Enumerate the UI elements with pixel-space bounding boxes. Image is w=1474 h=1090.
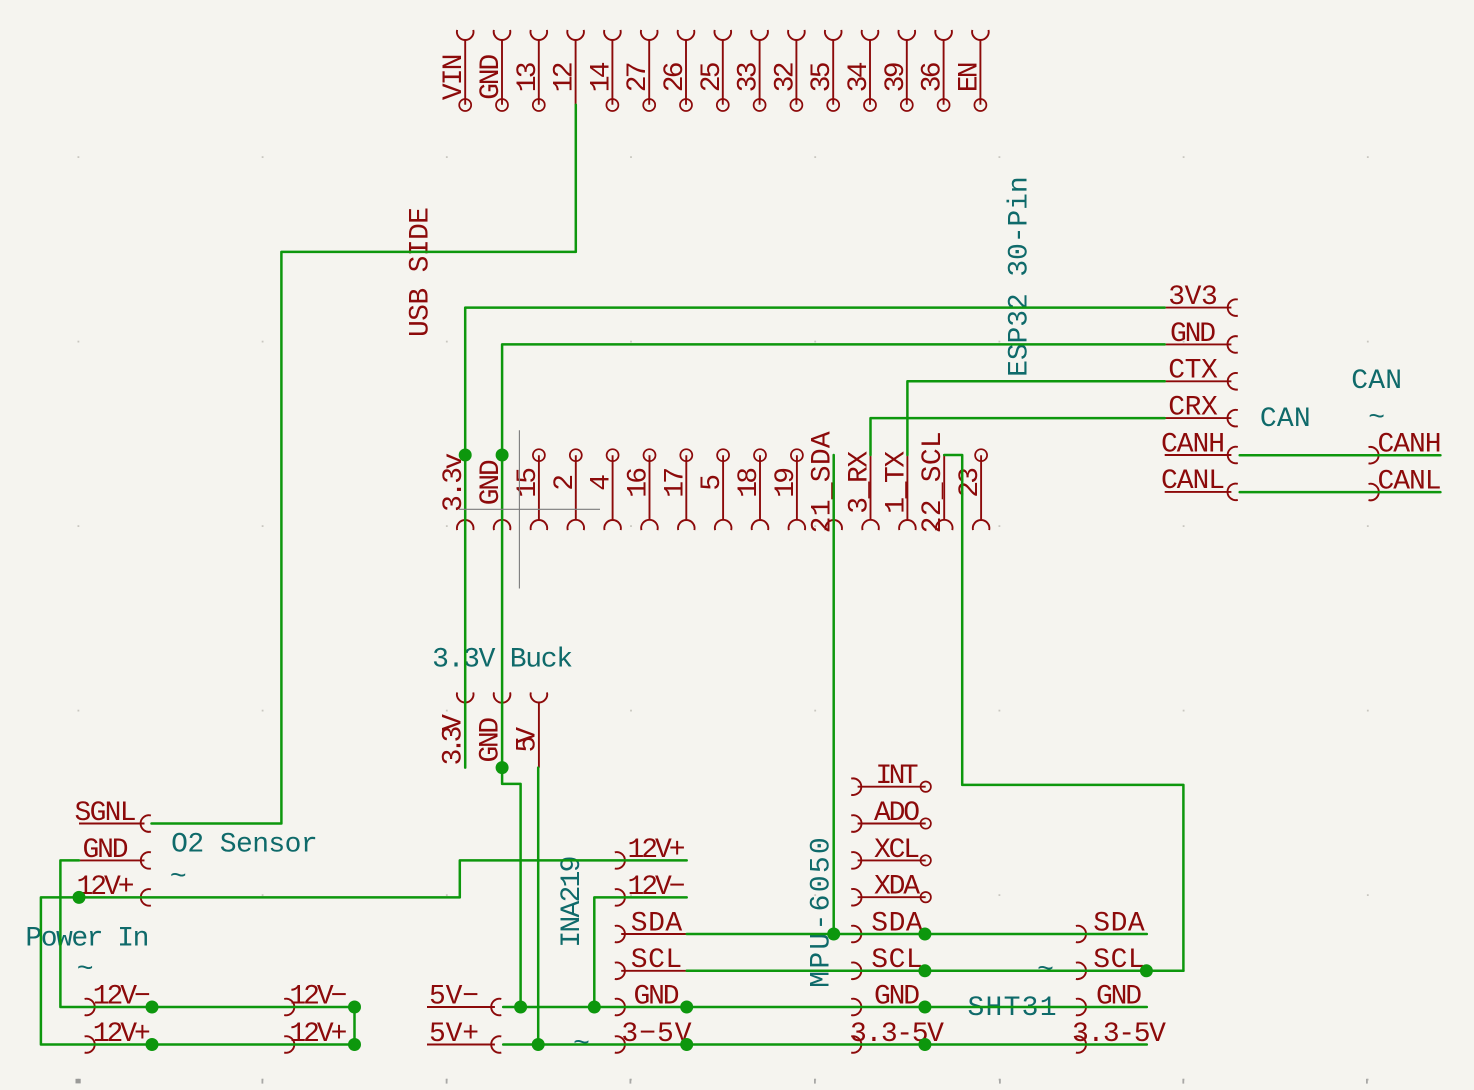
pin 32 (top header) <box>770 30 804 111</box>
svg-text:1_TX: 1_TX <box>881 451 912 514</box>
value label O2 Sensor <box>171 830 318 861</box>
svg-text:XCL: XCL <box>874 835 920 866</box>
pin 3.3-5V (MPU-6050) <box>850 1019 944 1053</box>
junction <box>73 891 86 904</box>
junction <box>496 449 509 462</box>
wire 12V+ left loop <box>41 897 355 1044</box>
pin 18 (ESP32 header) <box>734 449 768 530</box>
svg-text:4: 4 <box>587 474 618 491</box>
junction <box>348 1001 361 1014</box>
junction <box>348 1038 361 1051</box>
pin ADO (MPU-6050) <box>851 798 931 832</box>
pin 12V- (Power In) <box>85 981 152 1015</box>
svg-text:5V+: 5V+ <box>429 1019 479 1050</box>
wire pin12 to O2 SGNL <box>152 105 576 824</box>
value label CAN (connector) <box>1351 366 1402 397</box>
junction <box>514 1001 527 1014</box>
svg-text:5V−: 5V− <box>429 981 479 1012</box>
svg-text:25: 25 <box>697 61 728 92</box>
svg-text:13: 13 <box>513 61 544 92</box>
svg-text:XDA: XDA <box>874 872 920 903</box>
svg-text:35: 35 <box>807 61 838 92</box>
svg-text:23: 23 <box>955 467 986 498</box>
pin CTX (CAN module) <box>1165 356 1238 390</box>
junction <box>588 1001 601 1014</box>
pin 3.3V (3.3V Buck) <box>439 692 474 767</box>
svg-text:22_SCL: 22_SCL <box>918 431 949 533</box>
svg-text:ESP32 30-Pin: ESP32 30-Pin <box>1005 176 1036 377</box>
svg-text:34: 34 <box>844 61 875 92</box>
value label SHT31 <box>968 993 1057 1024</box>
pin 12V+ (INA219) <box>615 835 687 869</box>
pin 12V- (INA219) <box>615 872 687 906</box>
pin 27 (top header) <box>623 30 657 111</box>
svg-text:GND: GND <box>476 54 507 100</box>
pin 3.3-5V (SHT31) <box>1072 1019 1166 1053</box>
junction <box>1140 964 1153 977</box>
value label 3.3V Buck <box>432 645 573 676</box>
pin GND (O2 Sensor) <box>79 835 151 869</box>
pin 2 (ESP32 header) <box>550 449 584 530</box>
junction <box>680 1038 693 1051</box>
wire INA 12V- down <box>594 897 686 1007</box>
svg-text:INT: INT <box>876 761 919 792</box>
svg-text:VIN: VIN <box>439 54 470 101</box>
pin 17 (ESP32 header) <box>660 449 694 530</box>
pin SCL (SHT31) <box>1076 945 1147 979</box>
tilde field (SHT31) <box>1037 955 1054 986</box>
pin SDA (SHT31) <box>1076 908 1147 942</box>
wire SCL row <box>687 970 1184 973</box>
svg-text:16: 16 <box>624 467 655 498</box>
value label Power In <box>25 924 149 955</box>
pin SDA (MPU-6050) <box>851 908 925 942</box>
value label MPU-6050 <box>807 837 838 988</box>
pin 12V+ (O2 Sensor) <box>77 872 151 906</box>
pin 12V+ (Power In) <box>85 1019 152 1053</box>
svg-text:O2 Sensor: O2 Sensor <box>171 830 318 861</box>
svg-text:CANL: CANL <box>1161 466 1225 497</box>
pin SGNL (O2 Sensor) <box>75 798 151 832</box>
pin 3.3v (ESP32 header) <box>439 453 473 530</box>
wire 5V+ row <box>503 1043 1147 1046</box>
value label CAN (module) <box>1260 404 1311 435</box>
pin SDA (INA219) <box>615 908 687 942</box>
wire GND row <box>503 1006 1147 1009</box>
pin 5V- (INA219) <box>427 981 501 1015</box>
pin XDA (MPU-6050) <box>851 872 931 906</box>
pin 15 (ESP32 header) <box>513 449 547 530</box>
pin SCL (INA219) <box>615 945 687 979</box>
pin VIN (top header) <box>439 30 473 111</box>
svg-text:GND: GND <box>83 835 129 866</box>
junction <box>146 1038 159 1051</box>
pin 5V (3.3V Buck) <box>512 692 547 767</box>
pin 16 (ESP32 header) <box>624 449 658 530</box>
tilde field (Power In) <box>77 955 94 986</box>
pin GND (INA219) <box>615 981 687 1015</box>
value label INA219 <box>557 856 588 948</box>
svg-text:Power In: Power In <box>25 924 149 955</box>
pin 4 (ESP32 header) <box>587 449 621 530</box>
svg-text:26: 26 <box>660 61 691 92</box>
wire buck GND jog <box>502 768 520 1007</box>
pin INT (MPU-6050) <box>851 761 931 795</box>
pin GND (SHT31) <box>1076 981 1147 1015</box>
wire CANH <box>1240 454 1441 457</box>
pin 12V+ (power connector 2) <box>284 1019 354 1053</box>
svg-text:ADO: ADO <box>874 798 920 829</box>
junction <box>496 761 509 774</box>
pin 33 (top header) <box>734 30 768 111</box>
pin CANH (CAN connector) <box>1369 430 1442 464</box>
pin GND (ESP32 header) <box>476 455 510 530</box>
svg-text:17: 17 <box>660 467 691 498</box>
pin 12 (top header) <box>550 30 584 105</box>
pin 3V3 (CAN module) <box>1165 282 1238 316</box>
pin CANL (CAN module) <box>1161 466 1238 500</box>
wire SDA row <box>687 933 1147 936</box>
wire O2 GND loop <box>60 860 354 1007</box>
label ESP32 30-Pin <box>1005 176 1036 377</box>
pin CANH (CAN module) <box>1161 429 1238 463</box>
pin CRX (CAN module) <box>1165 393 1238 427</box>
junction <box>918 964 931 977</box>
svg-text:SGNL: SGNL <box>75 798 137 829</box>
wire 22_SCL to SHT31 SCL <box>944 455 1183 971</box>
svg-text:USB SIDE: USB SIDE <box>406 207 437 337</box>
svg-text:~: ~ <box>77 955 94 986</box>
svg-text:2: 2 <box>550 474 581 491</box>
junction <box>918 928 931 941</box>
svg-text:SDA: SDA <box>631 908 683 939</box>
wire GND net <box>502 344 1165 767</box>
svg-text:5: 5 <box>697 474 728 491</box>
svg-text:14: 14 <box>586 61 617 92</box>
tilde field (INA219) <box>573 1029 590 1060</box>
pin 1_TX (ESP32 header) <box>881 451 915 530</box>
svg-text:3V3: 3V3 <box>1168 282 1218 313</box>
junction <box>918 1038 931 1051</box>
svg-text:~: ~ <box>1368 403 1385 434</box>
pin 36 (top header) <box>918 30 952 111</box>
pin 23 (ESP32 header) <box>955 449 989 530</box>
junction <box>459 449 472 462</box>
pin 21_SDA (ESP32 header) <box>808 431 842 533</box>
junction <box>680 1001 693 1014</box>
svg-text:39: 39 <box>881 61 912 92</box>
wire CANL <box>1240 491 1441 494</box>
pin 13 (top header) <box>513 30 547 111</box>
pin XCL (MPU-6050) <box>851 835 931 869</box>
pin SCL (MPU-6050) <box>851 945 925 979</box>
pin 25 (top header) <box>697 30 731 111</box>
svg-text:CRX: CRX <box>1168 393 1218 424</box>
pin 14 (top header) <box>586 30 620 111</box>
wire CTX to 1_TX <box>907 381 1164 455</box>
svg-text:36: 36 <box>918 61 949 92</box>
svg-text:GND: GND <box>1170 319 1216 350</box>
svg-text:~: ~ <box>170 862 187 893</box>
svg-text:15: 15 <box>513 467 544 498</box>
pin 12V- (power connector 2) <box>284 981 354 1015</box>
pin 35 (top header) <box>807 30 841 111</box>
pin 3_RX (ESP32 header) <box>845 451 879 530</box>
pin 3-5V (INA219) <box>615 1019 692 1053</box>
pin 39 (top header) <box>881 30 915 111</box>
pin 5V+ (INA219) <box>427 1019 501 1053</box>
wire O2 12V+ to INA 12V+ <box>79 860 687 897</box>
tilde field (CAN connector) <box>1368 403 1385 434</box>
wire 3V3 net <box>465 308 1164 768</box>
wire 21_SDA vertical <box>832 455 835 934</box>
junction <box>532 1038 545 1051</box>
svg-text:CTX: CTX <box>1168 356 1218 387</box>
pin 34 (top header) <box>844 30 878 111</box>
svg-text:CANH: CANH <box>1161 429 1225 460</box>
wire buck 5V down <box>537 768 540 1045</box>
junction <box>827 928 840 941</box>
tilde field (O2 Sensor) <box>170 862 187 893</box>
svg-text:CAN: CAN <box>1260 404 1311 435</box>
svg-text:32: 32 <box>770 61 801 92</box>
pin 26 (top header) <box>660 30 694 111</box>
pin GND (CAN module) <box>1165 319 1238 353</box>
svg-text:CAN: CAN <box>1351 366 1402 397</box>
svg-text:SCL: SCL <box>631 945 682 976</box>
junction <box>918 1001 931 1014</box>
svg-text:18: 18 <box>734 467 765 498</box>
svg-text:33: 33 <box>734 61 765 92</box>
pin 22_SCL (ESP32 header) <box>918 431 952 533</box>
junction <box>146 1001 159 1014</box>
wire 12V tie <box>353 1007 356 1045</box>
pin EN (top header) <box>954 30 988 111</box>
svg-text:SHT31: SHT31 <box>968 993 1057 1024</box>
svg-text:19: 19 <box>771 467 802 498</box>
svg-text:12: 12 <box>550 61 581 92</box>
pin 5 (ESP32 header) <box>697 449 731 530</box>
pin CANL (CAN connector) <box>1369 466 1442 500</box>
pin 19 (ESP32 header) <box>771 449 805 530</box>
svg-text:EN: EN <box>954 61 985 92</box>
svg-text:5V: 5V <box>512 727 543 753</box>
pin GND (3.3V Buck) <box>476 692 511 767</box>
cursor crosshair <box>459 430 600 588</box>
svg-text:INA219: INA219 <box>557 856 588 948</box>
pin GND (MPU-6050) <box>851 981 925 1015</box>
svg-text:27: 27 <box>623 61 654 92</box>
pin GND (top header) <box>476 30 510 111</box>
label USB SIDE <box>406 207 437 337</box>
wire CRX to 3_RX <box>871 418 1165 455</box>
svg-text:3_RX: 3_RX <box>845 451 876 514</box>
